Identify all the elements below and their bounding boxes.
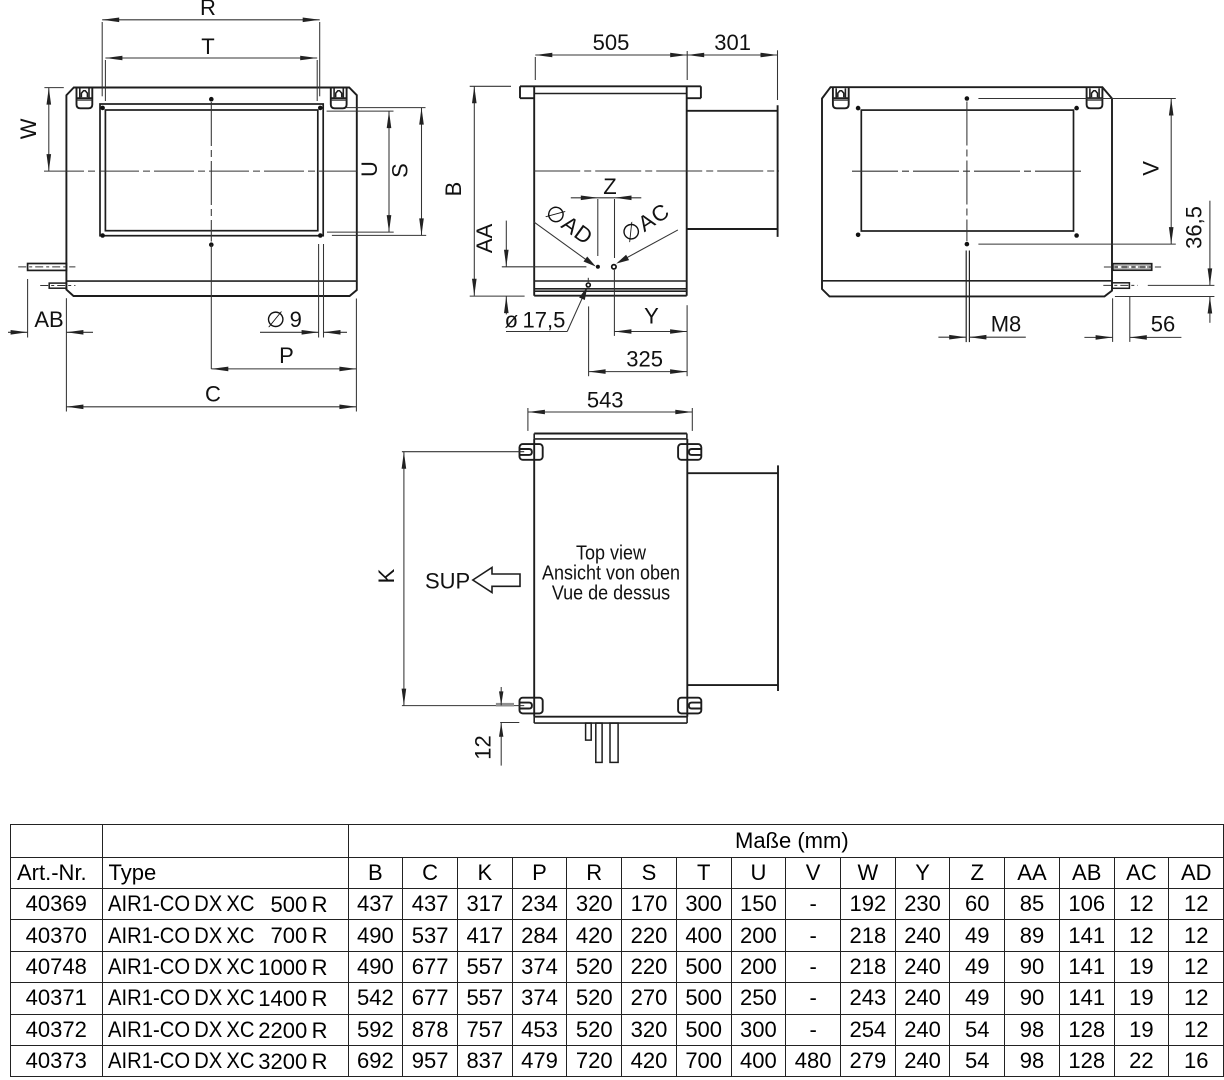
dimension 12 line+arrows [500, 687, 502, 705]
svg-text:K: K [374, 568, 399, 583]
top view: body right edge [686, 439, 688, 717]
right view: lower pipe [1112, 283, 1129, 289]
svg-text:Vue de dessus: Vue de dessus [552, 582, 670, 604]
dimension AA line+arrows [505, 221, 507, 267]
left view: screw dot panel bottom-right [318, 233, 323, 238]
left view: screw dot bottom-center [209, 242, 214, 247]
front view: hole AC [612, 265, 616, 269]
dimension P line [211, 368, 356, 370]
svg-text:C: C [205, 382, 221, 407]
right view: horizontal centerline [852, 170, 1085, 172]
dimension P extension line right [355, 299, 357, 412]
left view: mounting bracket right [331, 88, 347, 109]
svg-text:∅AD: ∅AD [541, 199, 598, 250]
svg-text:P: P [279, 343, 294, 368]
left view: screw dot panel bottom-left [100, 233, 105, 238]
dimension Z line+arrows [571, 197, 642, 199]
dimension AB extension lines [27, 279, 29, 338]
right view: screw dot panel bottom-right [1074, 233, 1079, 238]
left view: horizontal centerline [44, 170, 357, 172]
dimension B extension lines [470, 85, 511, 87]
dimension K extension lines [402, 451, 524, 453]
front view: body left edge [533, 86, 535, 295]
dimension 56 extension lines [1112, 298, 1114, 342]
left view: upper pipe centerline [18, 266, 75, 268]
dimension diam9 line+arrows [260, 331, 319, 333]
left view: screw dot panel top-right [318, 106, 323, 111]
dimension diam9 extension lines [318, 244, 320, 338]
svg-text:301: 301 [714, 30, 751, 55]
left view: screw dot panel top-left [100, 106, 105, 111]
dimension P extension line left (centerline ext) [210, 245, 212, 369]
right view: upper pipe centerline [1104, 266, 1161, 268]
top view: body bottom line [534, 716, 687, 718]
right view: screw dot panel top-left [856, 106, 861, 111]
dimension AB line+arrows [8, 331, 28, 333]
right view: base rail top line [822, 280, 1112, 282]
front view: base rail lines [534, 280, 687, 282]
front view: right flange tab [700, 86, 702, 98]
top view: bottom plate [533, 717, 535, 723]
right view: top dot extension line [978, 98, 1175, 100]
right view: screw dot panel bottom-left [856, 233, 861, 238]
right view: vertical centerline [966, 102, 968, 242]
dimension U line [388, 111, 390, 232]
front view: outlet duct [687, 110, 778, 112]
dimension 505 line [535, 54, 687, 56]
top view: flange [534, 433, 687, 435]
svg-text:V: V [1139, 161, 1164, 176]
left view: mounting bracket left [77, 88, 93, 109]
front view: left flange tab [519, 86, 521, 98]
dimension 325 line [589, 371, 688, 373]
svg-text:12: 12 [471, 735, 496, 759]
svg-text:SUP: SUP [425, 568, 470, 593]
dimension R line [102, 19, 320, 21]
dimension T line [105, 57, 317, 59]
top view: bracket top-left [520, 444, 543, 460]
dimension K line [403, 452, 405, 706]
svg-text:M8: M8 [991, 312, 1022, 337]
front view: drain hole [586, 283, 590, 287]
svg-text:36,5: 36,5 [1182, 206, 1207, 249]
dimension U extension lines [327, 110, 394, 112]
front view: hole AD [596, 265, 600, 269]
front view: body right edge [686, 86, 688, 295]
dimension 301 extension line right [777, 50, 779, 100]
dimension Y extension lines [613, 270, 615, 336]
svg-text:B: B [441, 182, 466, 197]
dimension C line [66, 406, 356, 408]
right view: upper pipe (threaded) [1114, 265, 1151, 269]
left view: vertical centerline [210, 102, 212, 242]
svg-text:T: T [201, 34, 214, 59]
right view: lower pipe center extension [1148, 284, 1215, 286]
left view: access panel outer rect [100, 104, 323, 236]
dimension M8 line+arrows [938, 336, 966, 338]
front view: top flange line [520, 85, 701, 87]
svg-text:ø 17,5: ø 17,5 [505, 308, 566, 333]
svg-text:∅ 9: ∅ 9 [266, 307, 302, 332]
leader diam AC [619, 230, 678, 262]
top view: bracket bottom-left [520, 698, 543, 714]
right view: unit body outline [822, 87, 1112, 296]
left view: lower pipe centerline [40, 285, 75, 287]
right view: screw dot bottom-center [965, 242, 970, 247]
front view: horizontal centerline [534, 170, 779, 172]
right view: screw dot panel top-right [1074, 106, 1079, 111]
right view: bottom edge extension [1115, 296, 1215, 298]
dimension S line [421, 108, 423, 236]
svg-text:W: W [16, 118, 41, 139]
right view: screw dot top-center [965, 96, 970, 101]
dimension B line [473, 86, 475, 295]
right view: lower pipe centerline [1103, 284, 1138, 286]
svg-text:Y: Y [644, 303, 659, 328]
leader drain 17,5 [506, 331, 567, 333]
dimension W extension line top [44, 87, 63, 89]
dimension 543 extension lines [527, 408, 529, 431]
dimension R extension lines [101, 22, 103, 96]
left view: access panel inner rect [105, 110, 317, 231]
dimension 543 line [528, 411, 692, 413]
svg-text:505: 505 [593, 30, 630, 55]
svg-text:325: 325 [626, 347, 663, 372]
top view: body left edge [533, 439, 535, 717]
left view: upper pipe stub [28, 264, 67, 271]
dimension AA extension line [502, 266, 587, 268]
dimension 12 tick mark [496, 703, 514, 707]
dimension 36,5 line+arrows [1209, 201, 1211, 286]
svg-text:543: 543 [587, 387, 624, 412]
left view: unit body outline [66, 88, 356, 297]
svg-text:56: 56 [1151, 312, 1175, 337]
dimension 12 lower reference line [500, 722, 519, 724]
dimension 301 line [687, 54, 777, 56]
top view: pipe stub medium [596, 723, 602, 762]
svg-text:AA: AA [472, 223, 497, 253]
svg-text:S: S [388, 163, 413, 178]
dimension S extension lines [347, 107, 426, 109]
top view: pipe stub wide [610, 723, 618, 762]
dimension V line [1170, 99, 1172, 245]
svg-text:Top view: Top view [576, 542, 646, 564]
right view: mounting bracket left [833, 88, 849, 109]
dimension T extension lines [104, 60, 106, 101]
right view: M8 stud double line [965, 251, 967, 343]
dimension Z extension lines [597, 199, 599, 256]
svg-text:R: R [200, 0, 216, 20]
svg-text:∅AC: ∅AC [616, 198, 674, 248]
top view: outlet duct [687, 472, 778, 474]
right view: panel rect [861, 110, 1073, 231]
svg-text:Ansicht von oben: Ansicht von oben [542, 562, 680, 584]
svg-text:Z: Z [603, 174, 616, 199]
dimension 325 extension line [588, 306, 590, 376]
dimension W line [48, 88, 50, 172]
left view: lower pipe stub [49, 283, 66, 288]
top view: bracket top-right [678, 444, 701, 460]
front view: flange underside line [534, 93, 687, 95]
top view: bracket bottom-right [678, 698, 701, 714]
left view: screw dot top-center [209, 97, 214, 102]
right view: mounting bracket right [1087, 88, 1103, 109]
svg-text:AB: AB [34, 307, 63, 332]
left view: base rail top line [66, 280, 356, 282]
dimension Y line [614, 331, 687, 333]
leader diam AD [534, 222, 593, 265]
symbol SUP arrow (hollow left arrow) [473, 568, 520, 593]
right view: bottom dot extension line [978, 243, 1175, 245]
dimension 56 line+arrows [1084, 336, 1112, 338]
dimension 505 extension lines [534, 57, 536, 80]
svg-text:U: U [357, 161, 382, 177]
top view: pipe stub small [586, 723, 592, 740]
